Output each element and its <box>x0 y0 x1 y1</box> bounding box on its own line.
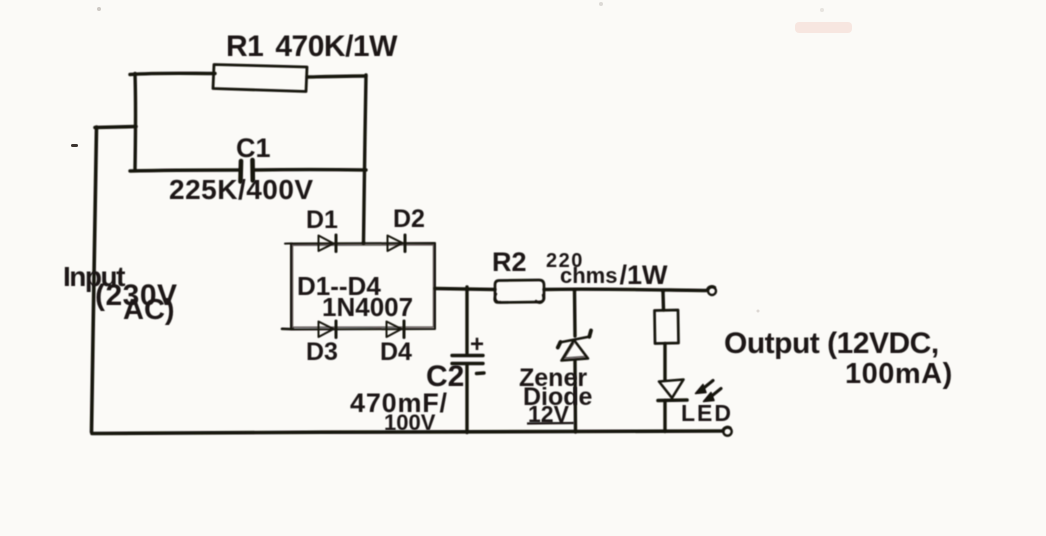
underline of 12V <box>527 422 574 425</box>
wire: left vertical of R1/C1 loop <box>133 74 137 171</box>
output terminal positive <box>708 287 716 295</box>
svg-text:+: + <box>470 331 484 358</box>
wire: R1 to top-right corner <box>307 76 366 77</box>
svg-text:AC): AC) <box>123 294 175 326</box>
svg-text:chms/1W: chms/1W <box>560 260 668 290</box>
wire: R2 to output terminal (doubled stroke) <box>544 289 706 290</box>
diode D3 <box>319 321 337 338</box>
wire: input left vertical line <box>92 127 97 432</box>
diode D4 <box>387 321 405 338</box>
svg-text:Output (12VDC,: Output (12VDC, <box>724 327 939 360</box>
capacitor C2 top plate <box>452 354 483 357</box>
LED arrows <box>696 381 722 402</box>
LED diode <box>658 380 687 401</box>
resistor R3 (LED series resistor) <box>655 310 679 344</box>
svg-text:D2: D2 <box>393 205 425 233</box>
output terminal negative <box>723 427 731 435</box>
wire: LED bottom lead <box>663 401 666 432</box>
wire: C2 top lead <box>465 287 468 353</box>
svg-text:D1: D1 <box>306 206 338 234</box>
capacitor C1 plate right <box>250 160 255 181</box>
resistor R2 corner curls <box>495 294 500 303</box>
junction: bridge top node <box>362 241 366 245</box>
svg-text:1N4007: 1N4007 <box>322 292 413 322</box>
svg-text:C1: C1 <box>236 133 271 163</box>
wire: zener bottom lead <box>573 361 577 432</box>
svg-text:D3: D3 <box>306 338 338 366</box>
wire: resistor R3 to LED <box>663 344 666 381</box>
svg-text:D4: D4 <box>380 338 412 366</box>
wire: zener branch top lead <box>573 290 577 336</box>
resistor R2 <box>495 280 544 303</box>
wire: bottom return wire <box>92 431 723 434</box>
svg-text:R2: R2 <box>492 247 527 277</box>
wire: right vertical from R1/C1 loop down to bridge <box>364 75 367 242</box>
svg-text:225K/400V: 225K/400V <box>169 174 314 205</box>
wire: C2 bottom lead <box>465 366 468 433</box>
wire: input jog to R1/C1 loop <box>95 127 136 128</box>
junction: C2 node <box>465 287 469 291</box>
wire: top wire left segment to R1 <box>130 73 215 74</box>
resistor R1 <box>213 65 307 92</box>
svg-text:100V: 100V <box>384 410 436 435</box>
svg-text:R1470K/1W: R1470K/1W <box>226 30 398 63</box>
capacitor C2 bottom plate <box>452 362 483 365</box>
junction: LED node <box>661 289 665 293</box>
wire: bridge output to R2 <box>435 289 495 290</box>
svg-text:LED: LED <box>681 400 733 426</box>
bridge rectifier box D1-D4 <box>282 243 435 330</box>
diode D2 <box>388 235 406 252</box>
svg-text:100mA): 100mA) <box>845 358 953 390</box>
wire: LED branch top lead <box>661 292 665 311</box>
capacitor C1 plate left <box>238 161 243 182</box>
label C2 minus <box>477 371 485 375</box>
wire: C1 right lead <box>254 168 366 172</box>
junction: zener node <box>573 288 577 292</box>
zener diode ZD1 <box>558 331 591 361</box>
wire: C1 left lead <box>130 170 239 171</box>
diode D1 <box>319 235 337 252</box>
